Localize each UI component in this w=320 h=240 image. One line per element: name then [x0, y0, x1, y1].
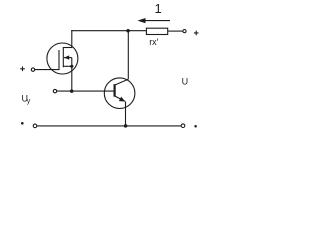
wire source down [71, 66, 73, 91]
wire emitter down [125, 101, 127, 126]
wire top rail [71, 30, 146, 32]
MOSFET bulk arrowhead [64, 55, 69, 59]
transistor BJT body circle [104, 78, 135, 109]
MOSFET gate electrode [58, 50, 60, 70]
terminal middle-left [53, 89, 56, 92]
terminal bottom-right [181, 124, 185, 128]
label + (top-right) [194, 31, 199, 36]
wire drain up [71, 30, 73, 47]
junction collector / top rail [126, 29, 130, 33]
terminal top-right [183, 30, 186, 33]
BJT emitter diagonal [115, 96, 125, 101]
svg-text:1: 1 [154, 1, 161, 16]
svg-text:U: U [182, 76, 189, 86]
MOSFET bulk-source connector [71, 58, 73, 67]
junction bulk-source [70, 65, 73, 68]
BJT base bar [113, 84, 115, 97]
wire base [57, 90, 114, 92]
label rx' [149, 37, 158, 47]
junction source / base [70, 89, 74, 93]
BJT emitter arrowhead [119, 97, 125, 102]
label + (top-left input) [20, 67, 25, 72]
label Uy [22, 93, 31, 105]
MOSFET source stub [63, 65, 72, 67]
junction emitter / bottom rail [124, 124, 128, 128]
label I [154, 1, 161, 16]
label minus dot bottom-left [21, 122, 24, 125]
terminal bottom-left [33, 124, 37, 128]
wire gate lead [35, 69, 59, 71]
transistor MOSFET body circle [47, 43, 78, 74]
MOSFET bulk line [64, 57, 72, 59]
label minus dot bottom-right [194, 125, 197, 128]
wire collector up [127, 31, 129, 79]
current arrow I [144, 20, 170, 22]
MOSFET channel bar [62, 47, 64, 67]
wire resistor to right terminal [168, 30, 183, 32]
wire bottom rail [37, 125, 181, 127]
terminal top-left input [31, 68, 34, 71]
MOSFET drain stub [63, 47, 72, 49]
svg-text:rx′: rx′ [149, 37, 158, 47]
BJT collector diagonal [115, 79, 128, 85]
label U [182, 76, 189, 86]
resistor rx' [146, 28, 167, 34]
